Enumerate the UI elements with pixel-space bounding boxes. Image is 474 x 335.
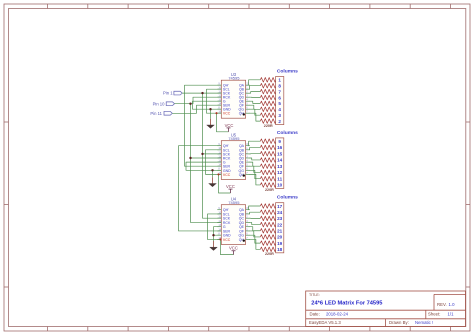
resistors 220R network 2 (8x)	[260, 139, 276, 187]
wire U4 GND to ground symbol	[213, 235, 215, 241]
svg-text:20: 20	[277, 235, 283, 240]
connector header Columns block 2	[276, 138, 284, 189]
svg-text:11: 11	[277, 176, 282, 181]
junction VCC U5	[217, 173, 219, 175]
wire U4 G tie to GND	[214, 227, 222, 236]
svg-text:3: 3	[278, 113, 281, 118]
VCC power flag block 1	[225, 123, 234, 132]
svg-text:19: 19	[277, 241, 283, 246]
junction SCK at U5	[201, 153, 203, 155]
svg-text:1/1: 1/1	[448, 312, 455, 317]
svg-text:9: 9	[278, 139, 281, 144]
IC U5 74595 shift register	[217, 141, 250, 180]
svg-text:Nematic !: Nematic !	[415, 320, 433, 325]
VCC power flag block 2	[226, 184, 235, 193]
svg-text:Pin 1: Pin 1	[163, 91, 173, 96]
svg-text:Sheet:: Sheet:	[428, 312, 440, 317]
svg-text:Columns: Columns	[277, 195, 298, 201]
svg-text:24*6 LED Matrix For 74595: 24*6 LED Matrix For 74595	[311, 300, 382, 306]
svg-text:Pin 10: Pin 10	[153, 101, 166, 106]
wire RCK branch to U5	[191, 157, 222, 159]
wires U5 outputs QA-QH to resistors	[249, 141, 261, 185]
VCC power flag block 3	[229, 246, 238, 255]
wire U4 SCL tie to VCC	[208, 214, 222, 240]
wires U3 outputs QA-QH to resistors	[249, 80, 261, 121]
wire SCK bus vertical	[203, 93, 222, 218]
ground symbol block 1	[207, 119, 215, 129]
title block box	[306, 291, 466, 327]
svg-text:220R: 220R	[265, 188, 274, 192]
wire cascade QH' U3 to SER U5	[185, 85, 222, 166]
svg-text:Drawn By:: Drawn By:	[389, 320, 409, 325]
svg-text:16: 16	[277, 145, 283, 150]
wire SCK branch to U5	[203, 153, 222, 155]
svg-text:21: 21	[277, 229, 283, 234]
wire Pin 11 to SER (U3)	[172, 105, 221, 113]
IC U3 74595 shift register	[217, 80, 250, 118]
svg-text:VCC: VCC	[223, 173, 231, 177]
wire U3 G tie to GND	[193, 101, 222, 109]
wire U5 GND to ground symbol	[212, 170, 214, 177]
svg-text:Date:: Date:	[310, 312, 320, 317]
junction RCK at U5	[189, 157, 191, 159]
junction GND tap U4	[212, 234, 214, 236]
svg-text:13: 13	[277, 164, 283, 169]
svg-text:TITLE:: TITLE:	[309, 293, 320, 297]
wire U3 VCC pin to VCC flag	[217, 113, 229, 132]
wire RCK bus vertical	[191, 104, 222, 223]
ground symbol block 2	[209, 177, 217, 187]
junction GND tap U3	[209, 108, 211, 110]
svg-text:23: 23	[277, 216, 283, 221]
ground symbol block 3	[210, 241, 218, 251]
svg-text:VCC: VCC	[223, 112, 231, 116]
svg-text:1: 1	[278, 78, 281, 83]
svg-text:VCC: VCC	[225, 123, 234, 128]
resistors 220R network 3 (8x)	[260, 204, 276, 252]
svg-text:18: 18	[277, 247, 283, 252]
svg-text:VCC: VCC	[226, 184, 235, 189]
svg-text:REV.: REV.	[437, 302, 447, 307]
svg-text:Columns: Columns	[277, 130, 298, 136]
junction SCK at Pin1 row	[201, 92, 203, 94]
svg-text:17: 17	[277, 204, 283, 209]
resistors 220R network 1 (8x)	[260, 78, 276, 124]
junction GND tap U5	[211, 169, 213, 171]
wire cascade QH' U5 to SER U4	[179, 146, 222, 231]
svg-text:22: 22	[277, 222, 283, 227]
svg-text:Pin 11: Pin 11	[150, 111, 162, 116]
junction VCC U4	[219, 238, 221, 240]
svg-text:8: 8	[278, 83, 281, 88]
net port Pin 1	[163, 91, 182, 96]
svg-text:4: 4	[278, 107, 281, 112]
svg-text:5: 5	[278, 101, 281, 106]
junction RCK at Pin10 row	[189, 103, 191, 105]
connector header Columns block 3	[276, 203, 284, 253]
wire U4 VCC pin to VCC flag	[221, 239, 234, 254]
wire U3 GND to ground symbol	[210, 109, 212, 119]
svg-text:Columns: Columns	[277, 68, 298, 74]
svg-text:2: 2	[278, 119, 281, 124]
wire U5 SCL tie to VCC	[206, 150, 222, 175]
wire Pin 10 to RCK (U3)	[175, 97, 222, 104]
wire U5 G tie to GND	[186, 162, 221, 170]
svg-text:EasyEDA V5.1.3: EasyEDA V5.1.3	[309, 320, 341, 325]
svg-text:24: 24	[277, 210, 283, 215]
svg-text:220R: 220R	[265, 252, 274, 256]
svg-text:7: 7	[278, 89, 281, 94]
wire U3 SCL tie to VCC	[207, 89, 222, 113]
net port Pin 11	[150, 111, 172, 116]
svg-text:14: 14	[277, 158, 283, 163]
connector header Columns block 1	[276, 77, 284, 125]
svg-text:2018-02-24: 2018-02-24	[326, 312, 349, 317]
svg-text:VCC: VCC	[223, 238, 231, 242]
svg-text:220R: 220R	[264, 124, 273, 128]
wire U5 VCC pin to VCC flag	[219, 174, 231, 193]
net port Pin 10	[153, 101, 175, 106]
svg-text:6: 6	[278, 95, 281, 100]
svg-text:12: 12	[277, 170, 283, 175]
svg-text:VCC: VCC	[229, 246, 238, 251]
junction VCC U3	[215, 112, 217, 114]
svg-text:1.0: 1.0	[449, 302, 456, 307]
wires U4 outputs QA-QH to resistors	[249, 206, 261, 249]
IC U4 74595 shift register	[217, 205, 250, 245]
svg-text:10: 10	[277, 183, 283, 188]
svg-text:15: 15	[277, 151, 283, 156]
wire Pin 1 to SCK (U3)	[182, 92, 221, 94]
